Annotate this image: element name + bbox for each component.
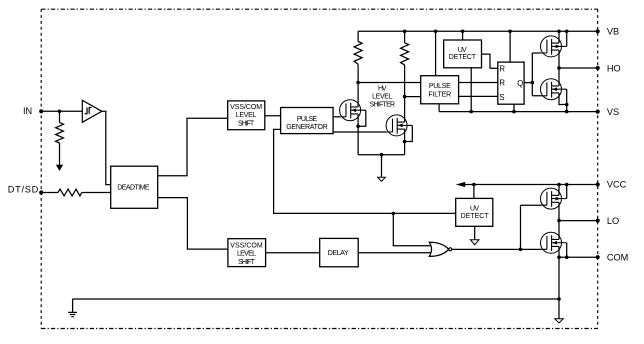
junction VCC body [565,183,569,187]
vss/com level shift block (low side) [228,239,266,267]
wire DT/SD input [41,192,58,194]
junction VS rail UV [469,110,473,114]
svg-text:DT/SD: DT/SD [8,185,39,195]
junction Q2 body-source [403,140,407,144]
wire level shift to pulse generator [265,115,281,117]
junction COM source [557,255,561,259]
svg-text:SHIFTER: SHIFTER [370,101,396,108]
svg-text:DEADTIME: DEADTIME [117,184,150,191]
wire pulse gen out 1 [333,116,340,118]
wire rail to VS arrow [381,155,383,178]
svg-text:R: R [499,64,505,73]
wire UV detect bottom to VS rail [470,68,472,112]
svg-text:Q: Q [517,79,523,88]
junction top rail pulse filter [434,30,438,34]
top rail VB [358,30,598,32]
svg-text:S: S [499,93,504,102]
junction nor output [519,248,523,252]
transistor Q4 (high side output N) [541,79,567,100]
wire Q6 body to COM [566,243,568,257]
ground arrow (filled, under R1) [56,165,63,171]
delay block [320,238,359,266]
transistor Q6 (low side output N) [541,232,567,253]
wire VS rail [439,111,598,113]
junction LO [557,219,561,223]
terminal COM [596,255,600,259]
wire Q1 body tie [358,110,366,126]
svg-text:LEVEL: LEVEL [372,93,392,100]
svg-text:PULSE: PULSE [297,116,318,123]
hysteresis symbol [85,108,92,114]
open arrow below ground rail [555,319,563,323]
svg-text:IN: IN [23,106,32,116]
junction top rail latch [508,30,512,34]
wire resistor to ground arrow [59,143,61,165]
svg-text:DELAY: DELAY [328,250,349,257]
latch U2 [498,62,524,104]
wire Q4 source step [559,93,567,105]
wire Q4 drain to HO [558,68,560,86]
wire deadtime out A to level shift [158,118,228,176]
svg-text:VSS/COM: VSS/COM [230,104,262,111]
svg-text:LEVEL: LEVEL [237,251,256,258]
junction VCC drain [557,183,561,187]
dashed border frame [41,8,598,10]
pulse generator block [281,108,334,134]
nor gate U3 [429,242,448,256]
wire latch Q output [524,53,541,96]
terminal HO [596,66,600,70]
ground rail [73,298,559,300]
wire S line to pulse filter [405,96,421,98]
wire Q5 source to LO [558,202,560,220]
svg-text:R: R [499,78,505,87]
junction node B [392,212,396,216]
VCC rail with arrow [461,184,598,186]
wire Q5 drain to VCC [558,185,560,196]
wire IN resistor drop [59,111,61,122]
wire Q2 body tie [405,125,413,141]
junction VCC UV [472,183,476,187]
wire UV detect out to latch R [482,54,498,68]
svg-text:COM: COM [607,252,628,262]
junction VS body [565,110,569,114]
wire IN input [41,110,82,112]
open arrow under UV low [470,240,479,245]
svg-text:HV: HV [378,86,387,93]
svg-text:FILTER: FILTER [428,91,451,98]
junction top rail R4 [403,30,407,34]
svg-text:GENERATOR: GENERATOR [286,124,328,131]
wire Q5 body to VCC [566,185,568,199]
wire Q1 source [357,114,359,155]
wire Q6 drain to LO [558,221,560,240]
resistor R2 (DT/SD series) [58,189,82,196]
ground symbol [68,299,77,317]
wire top rail to latch [509,31,511,62]
filled left arrow VCC [456,182,465,187]
junction IN resistor [58,110,62,114]
wire Q3 body to VB [566,31,568,46]
UV detect block (low side) [456,198,493,226]
svg-text:PULSE: PULSE [429,83,451,90]
wire nor output [452,205,541,249]
wire LO line [559,220,598,222]
terminal DT/SD [39,190,43,194]
junction Q output [531,81,535,85]
svg-text:SHIFT: SHIFT [238,121,255,128]
schmitt trigger buffer U1 [82,100,102,122]
wire Q3 source to HO [558,50,560,68]
wire top rail to UV detect [462,31,464,40]
junction R3 drain [356,81,360,85]
wire COM line [559,256,598,258]
deadtime block [111,166,158,208]
junction HO [557,66,561,70]
wire Q6 source to COM and ground [558,246,560,319]
wire pulse gen out 2 [333,131,386,133]
junction R4 drain [403,95,407,99]
junction VB drain [557,30,561,34]
wire R line to pulse filter [358,82,421,84]
svg-text:UV: UV [458,47,467,54]
svg-text:VSS/COM: VSS/COM [230,243,263,250]
svg-text:HO: HO [607,63,621,73]
wire R3 to Q1 drain [357,64,359,107]
junction COM body [565,255,569,259]
wire level shift to delay [266,252,320,254]
wire resistor to deadtime [82,192,111,194]
junction Q1 body-source [356,124,360,128]
svg-text:DETECT: DETECT [461,213,490,220]
wire UV low bottom arrow [474,226,476,240]
wire pulse filter to latch R [459,82,498,84]
wire HO line [559,67,598,69]
junction ground rail [557,297,561,301]
wire Q2 source [404,129,406,155]
wire deadtime out B to level shift [158,198,228,250]
terminal LO [596,219,600,223]
resistor R4 [404,31,406,43]
junction VB body [565,30,569,34]
terminal VS [596,110,600,114]
wire branch to nor input [393,213,431,245]
svg-text:VS: VS [607,107,619,117]
wire Q3 drain to VB [558,31,560,43]
svg-text:SHIFT: SHIFT [238,259,255,266]
wire branch down to low side logic [274,129,456,213]
svg-text:DETECT: DETECT [449,54,477,61]
junction top rail UV [461,30,465,34]
UV detect block (high side) [444,40,482,68]
wire latch bottom to VS rail [513,104,515,111]
wire pulse filter to latch S [459,95,498,97]
transistor Q5 (low side output P) [541,188,567,209]
wire schmitt output to deadtime [102,111,111,184]
vss/com level shift block (high side) [228,101,265,130]
terminal VCC [596,182,600,186]
wire HV source rail [358,154,405,156]
pulse filter block [421,76,459,104]
resistor R1 (IN pulldown) [56,123,64,143]
svg-text:VB: VB [607,27,619,37]
junction VS rail latch [512,110,516,114]
svg-text:LEVEL: LEVEL [236,112,257,119]
terminal IN [39,109,43,113]
transistor Q3 (high side output P) [541,36,567,57]
junction source rail tap [380,153,384,157]
svg-text:UV: UV [470,206,479,213]
wire Q4 body to VS [566,89,568,111]
wire VCC to UV detect low [473,185,475,199]
svg-text:VCC: VCC [607,179,627,189]
wire R4 to Q2 drain [404,65,406,122]
resistor R3 [357,31,359,41]
wire delay to nor [358,252,431,254]
svg-text:LO: LO [607,216,619,226]
transistor Q1 (HV level shift left) [340,100,366,121]
wire pulse filter bottom to VS rail [438,104,440,112]
open arrow (VS return) [378,177,386,181]
transistor Q2 (HV level shift right) [386,115,412,136]
junction Q4 body-source [565,103,569,107]
terminal VB [596,29,600,33]
wire top rail to pulse filter [435,31,437,75]
